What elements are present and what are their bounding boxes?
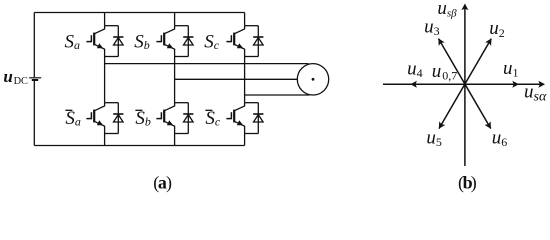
wire: leg c vertical, rail to Sc collector <box>244 13 246 26</box>
svg-text:Sc: Sc <box>204 32 220 53</box>
svg-text:Sb: Sb <box>135 108 151 129</box>
battery u_DC short thick plate (-) <box>32 79 38 81</box>
motor M (circle with centre dot) <box>297 64 328 95</box>
wire: leg c vertical, Sc emitter to S̄c collector <box>244 57 246 103</box>
wire: leg a vertical, Sa emitter to S̄a collector <box>104 57 106 103</box>
svg-text:Sc: Sc <box>205 108 221 129</box>
svg-text:u: u <box>3 67 12 86</box>
svg-text:DC: DC <box>14 76 28 87</box>
svg-text:u2: u2 <box>489 18 505 40</box>
switch S̄a (IGBT + diode) <box>86 103 123 134</box>
svg-text:): ) <box>166 172 172 193</box>
switch S̄c (IGBT + diode) <box>226 103 263 134</box>
arrowhead u4 <box>410 81 417 88</box>
wire: leg b vertical, rail to Sb collector <box>174 13 176 26</box>
battery u_DC long plate (+) <box>29 77 41 79</box>
svg-text:Sa: Sa <box>65 108 81 129</box>
wire: top DC rail <box>34 12 244 14</box>
arrowhead u_s-beta axis <box>461 4 468 11</box>
svg-text:Sa: Sa <box>65 32 81 53</box>
arrowhead u3 <box>435 37 444 46</box>
wire: leg b vertical, S̄b emitter to bottom rail <box>174 134 176 146</box>
switch Sa (IGBT + diode) <box>86 26 123 57</box>
vector line u2-u5 diagonal <box>439 39 491 129</box>
svg-text:u4: u4 <box>407 58 423 80</box>
svg-text:Sb: Sb <box>134 32 150 53</box>
switch Sb (IGBT + diode) <box>156 26 193 57</box>
svg-text:): ) <box>471 172 477 193</box>
svg-text:u3: u3 <box>424 16 440 38</box>
wire: leg b vertical, Sb emitter to S̄b collector <box>174 57 176 103</box>
arrowhead u2 <box>485 37 494 46</box>
arrowhead u5 <box>436 121 445 130</box>
wire: phase c output line <box>245 94 310 96</box>
arrowhead u1 <box>512 81 519 88</box>
axis u_s-alpha (horizontal line) <box>383 83 544 85</box>
arrowhead u_s-alpha axis <box>538 81 545 88</box>
wire: left vertical (DC source branch), upper part <box>33 13 35 78</box>
arrowhead u6 <box>485 121 494 130</box>
wire: leg a vertical, rail to Sa collector <box>104 13 106 26</box>
axis u_s-beta (vertical line) <box>464 5 466 166</box>
svg-text:u1: u1 <box>503 58 519 80</box>
switch Sc (IGBT + diode) <box>226 26 263 57</box>
wire: phase a output line <box>105 63 309 65</box>
svg-text:usβ: usβ <box>437 0 457 19</box>
switch S̄b (IGBT + diode) <box>156 103 193 134</box>
vector line u3-u6 diagonal <box>439 39 491 129</box>
svg-text:usα: usα <box>524 82 547 105</box>
svg-text:u6: u6 <box>492 127 508 149</box>
wire: leg c vertical, S̄c emitter to bottom rail <box>244 134 246 146</box>
wire: bottom DC rail <box>34 145 244 147</box>
svg-text:u5: u5 <box>426 127 442 149</box>
wire: leg a vertical, S̄a emitter to bottom rail <box>104 134 106 146</box>
wire: phase b output line <box>175 78 298 80</box>
wire: left vertical (DC source branch), lower part <box>33 81 35 146</box>
